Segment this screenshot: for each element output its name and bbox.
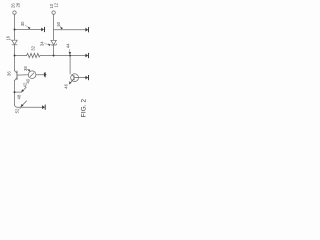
svg-text:38: 38: [23, 66, 28, 71]
wire: branch at node 44 going down to transistor 46: [69, 56, 71, 75]
transistor 36 base lead to current source 38: [17, 74, 28, 76]
zener 34 (cathode-down on middle bus): [51, 40, 57, 45]
svg-text:26: 26: [10, 3, 15, 8]
emitter arrowhead of transistor 46: [69, 81, 71, 84]
arrowhead of leader 38: [27, 70, 30, 72]
wire: middle vertical, rail to zener 34: [53, 30, 55, 41]
resistor 32: [27, 53, 40, 57]
wire: left vertical bus from top rail to diode 16: [14, 30, 16, 41]
wire: current source 38 output lead: [36, 74, 44, 76]
connector stub at end of bottom rail: [85, 54, 88, 58]
transistor 46 emitter diagonal inside envelope: [72, 79, 74, 81]
transistor 46 envelope: [71, 74, 79, 82]
wire: middle vertical from terminal 10 to top-right rail: [53, 14, 55, 29]
current source 38 internal arrow: [30, 73, 34, 77]
switch arm 42 tap line: [15, 91, 22, 93]
connector stub at end of current source 38 lead: [44, 73, 47, 77]
leader line 38: [27, 69, 29, 71]
arrowhead of leader 30: [28, 27, 31, 30]
leader line 30: [25, 25, 28, 28]
wire: left vertical bus from terminal down to top rail: [14, 14, 16, 29]
leader line 50: [60, 25, 61, 27]
wire: bottom rail left segment: [15, 55, 27, 57]
svg-text:32: 32: [31, 45, 36, 50]
svg-text:12: 12: [54, 2, 59, 7]
wire: transistor 46 emitter lead (down-left): [69, 81, 72, 84]
svg-text:42: 42: [23, 82, 28, 87]
svg-text:30: 30: [20, 21, 25, 26]
junction node at left bus / top rail: [14, 29, 16, 31]
svg-text:50: 50: [56, 21, 61, 26]
leader line 16: [10, 39, 12, 41]
svg-text:28: 28: [16, 2, 21, 7]
wire: rounded corner into bottom output line: [15, 104, 18, 107]
transistor 36 base bar: [16, 71, 18, 80]
wire: bottom rail right segment: [40, 55, 85, 57]
connector stub at end of top-left rail: [41, 28, 44, 32]
connector stub at end of transistor 46 collector: [85, 76, 88, 80]
terminal 26 (input, top-left): [13, 11, 16, 14]
wire: left vertical bus bottom rail to transistor 36: [14, 56, 16, 71]
leader line 44: [68, 49, 70, 53]
arrowhead on arrow 50 bottom: [21, 104, 24, 107]
arrowhead of leader 34: [48, 44, 51, 47]
wire: transistor 46 collector lead (right): [79, 77, 86, 79]
arrowhead of leader 50: [60, 27, 63, 30]
wire: left vertical bus diode to bottom rail: [14, 45, 16, 55]
svg-text:44: 44: [66, 43, 71, 48]
wire: left vertical bus transistor 36 down to corner: [14, 81, 16, 105]
transistor 36 emitter diagonal: [15, 77, 18, 80]
wire: middle vertical, zener 34 to bottom rail: [53, 46, 55, 57]
svg-text:48: 48: [17, 94, 22, 99]
leader line 52: [19, 108, 21, 110]
arrowhead on switch arm 42: [21, 89, 24, 92]
arrow 50 diagonal on bottom line: [21, 101, 27, 107]
leader line 34: [44, 44, 49, 45]
diode 16 (cathode-down on left bus): [12, 40, 17, 45]
wire: bottom output line: [17, 106, 42, 108]
junction node 44 on bottom rail: [69, 55, 71, 57]
transistor 46 base lead inside envelope: [74, 77, 79, 79]
svg-text:FIG. 2: FIG. 2: [80, 98, 87, 117]
transistor 46 base bar: [73, 75, 75, 80]
wire: top-right rail: [54, 29, 86, 31]
arrowhead of leader 44: [69, 52, 72, 55]
current source 38 envelope: [28, 71, 36, 79]
switch arm 42 diagonal: [21, 87, 26, 92]
svg-text:46: 46: [64, 83, 69, 88]
svg-text:36: 36: [7, 71, 12, 76]
connector stub at end of bottom output line: [42, 105, 45, 109]
transistor 36 collector diagonal: [15, 71, 18, 74]
junction node at switch tap: [14, 91, 16, 93]
svg-text:16: 16: [5, 35, 10, 40]
svg-text:34: 34: [40, 41, 45, 46]
transistor 46 collector diagonal inside envelope: [72, 75, 74, 77]
terminal 10 (input, top-middle): [52, 11, 55, 14]
wire: top-left rail: [15, 29, 42, 31]
svg-text:52: 52: [14, 108, 19, 113]
connector stub at end of top-right rail: [85, 28, 88, 32]
junction node at middle bus / bottom rail: [53, 55, 55, 57]
junction node at left bus / bottom rail: [14, 55, 16, 57]
